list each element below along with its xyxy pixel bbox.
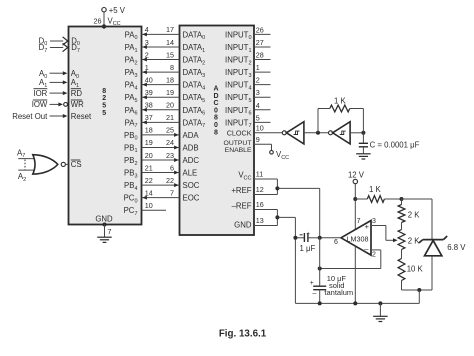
svg-text:14: 14	[145, 188, 153, 197]
svg-text:0: 0	[214, 122, 218, 129]
svg-text:26: 26	[94, 16, 102, 25]
svg-text:A: A	[213, 86, 218, 93]
svg-text:14: 14	[166, 38, 174, 47]
svg-text:LM308: LM308	[347, 235, 369, 244]
svg-text:6.8 V: 6.8 V	[447, 243, 466, 252]
svg-text:13: 13	[256, 216, 264, 225]
svg-text:+: +	[310, 280, 314, 287]
svg-text:18: 18	[145, 126, 153, 135]
svg-text:tantalum: tantalum	[324, 288, 353, 297]
svg-text:4: 4	[256, 101, 260, 110]
svg-text:+: +	[365, 222, 370, 231]
svg-text:2: 2	[256, 76, 260, 85]
svg-text:23: 23	[166, 151, 174, 160]
svg-text:+REF: +REF	[231, 186, 251, 195]
svg-text:2: 2	[145, 50, 149, 59]
svg-text:CLOCK: CLOCK	[227, 129, 252, 138]
svg-text:7: 7	[357, 218, 361, 225]
svg-text:7: 7	[108, 227, 112, 236]
svg-text:22: 22	[145, 176, 153, 185]
svg-text:20: 20	[145, 151, 153, 160]
svg-text:8: 8	[214, 129, 218, 136]
svg-text:ADC: ADC	[183, 156, 200, 165]
svg-text:1 K: 1 K	[369, 185, 382, 194]
svg-text:CS: CS	[71, 160, 82, 169]
svg-text:OUTPUT: OUTPUT	[224, 140, 252, 147]
svg-text:C: C	[213, 100, 218, 107]
svg-text:10: 10	[256, 123, 264, 132]
svg-text:D: D	[213, 93, 218, 100]
svg-text:2: 2	[102, 95, 106, 102]
svg-text:6: 6	[334, 239, 338, 246]
svg-text:9: 9	[256, 135, 260, 144]
svg-text:24: 24	[166, 138, 174, 147]
svg-text:22: 22	[166, 176, 174, 185]
svg-text:ADB: ADB	[183, 143, 199, 152]
svg-text:11: 11	[256, 170, 263, 179]
svg-text:WR: WR	[71, 100, 84, 109]
svg-text:39: 39	[145, 88, 153, 97]
svg-text:4: 4	[145, 25, 149, 34]
svg-text:20: 20	[166, 101, 174, 110]
svg-text:IOW: IOW	[32, 100, 48, 109]
svg-text:28: 28	[256, 51, 264, 60]
svg-text:1: 1	[145, 63, 149, 72]
svg-text:SOC: SOC	[183, 181, 200, 190]
svg-text:3: 3	[256, 88, 260, 97]
svg-text:0: 0	[214, 107, 218, 114]
svg-text:2 K: 2 K	[408, 237, 421, 246]
svg-text:2 K: 2 K	[408, 211, 421, 220]
svg-text:Reset: Reset	[71, 112, 92, 121]
svg-text:38: 38	[145, 101, 153, 110]
svg-text:21: 21	[166, 113, 174, 122]
svg-text:1 μF: 1 μF	[300, 244, 316, 253]
svg-text:3: 3	[145, 38, 149, 47]
svg-text:10 K: 10 K	[407, 264, 424, 273]
svg-text:8: 8	[170, 63, 174, 72]
svg-text:10: 10	[145, 201, 153, 210]
svg-text:Fig. 13.6.1: Fig. 13.6.1	[219, 329, 267, 340]
svg-text:19: 19	[145, 138, 153, 147]
svg-text:RD: RD	[71, 89, 83, 98]
svg-text:8: 8	[214, 115, 218, 122]
svg-text:18: 18	[166, 75, 174, 84]
svg-text:16: 16	[256, 200, 264, 209]
svg-text:+: +	[306, 230, 310, 237]
svg-text:ENABLE: ENABLE	[225, 147, 252, 154]
svg-text:2: 2	[372, 251, 376, 258]
svg-text:6: 6	[170, 163, 174, 172]
svg-text:5: 5	[102, 110, 106, 117]
svg-text:Reset Out: Reset Out	[12, 112, 48, 121]
svg-text:3: 3	[372, 218, 376, 225]
svg-text:1 K: 1 K	[334, 96, 347, 105]
svg-text:37: 37	[145, 113, 153, 122]
svg-text:26: 26	[256, 25, 264, 34]
svg-text:27: 27	[256, 38, 264, 47]
svg-text:12: 12	[256, 185, 264, 194]
svg-text:17: 17	[166, 25, 174, 34]
svg-text:ALE: ALE	[183, 169, 198, 178]
svg-text:IOR: IOR	[33, 89, 47, 98]
svg-text:1: 1	[256, 63, 260, 72]
svg-text:15: 15	[166, 50, 174, 59]
svg-text:–: –	[312, 290, 316, 297]
svg-text:+5 V: +5 V	[109, 6, 126, 15]
svg-text:7: 7	[170, 188, 174, 197]
svg-text:GND: GND	[95, 214, 113, 223]
svg-text:ADA: ADA	[183, 131, 200, 140]
svg-text:GND: GND	[234, 221, 252, 230]
svg-text:–REF: –REF	[232, 202, 252, 211]
svg-text:25: 25	[166, 126, 174, 135]
svg-text:12 V: 12 V	[348, 170, 365, 179]
svg-text:8: 8	[102, 88, 106, 95]
svg-text:EOC: EOC	[183, 194, 200, 203]
svg-text:21: 21	[145, 163, 153, 172]
svg-text:5: 5	[102, 103, 106, 110]
svg-text:5: 5	[256, 113, 260, 122]
svg-text:40: 40	[145, 75, 153, 84]
svg-text:19: 19	[166, 88, 174, 97]
svg-text:C = 0.0001 μF: C = 0.0001 μF	[370, 141, 420, 150]
